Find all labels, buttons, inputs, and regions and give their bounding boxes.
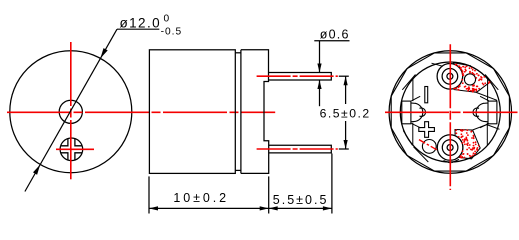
small hole diagonal centerline: [419, 140, 439, 151]
diameter dim arrow lower: [33, 165, 40, 175]
6.5 arrow down: [344, 140, 348, 149]
arrow 5.5 left: [269, 206, 278, 210]
diameter dim text underline: [117, 28, 159, 30]
6.5 dim line lower seg: [345, 121, 347, 149]
right tab wedge upper: [480, 96, 489, 101]
plus polarity cross: [419, 122, 435, 138]
top pocket wedge left: [432, 63, 443, 66]
left tab rectangle: [402, 101, 411, 124]
rib line lower right a: [473, 125, 487, 130]
rib vertical below left tab: [412, 123, 414, 145]
right tab bump: [476, 103, 488, 122]
pin1 terminal hole: [447, 73, 453, 79]
side view body outline: [149, 50, 235, 174]
rib vertical above left tab: [412, 78, 414, 102]
centerline vertical front: [70, 42, 72, 179]
ø0.6 leader lower: [319, 80, 321, 106]
front view body circle: [10, 51, 132, 173]
arrow 10 right: [260, 206, 269, 210]
right tab nose: [473, 108, 479, 116]
back view outer circle: [389, 51, 511, 173]
pin2 terminal hole: [447, 145, 453, 151]
pin1 terminal washer outer: [437, 64, 463, 90]
centerline horizontal front+side: [7, 111, 275, 113]
wire hole circle top: [464, 74, 475, 85]
solder region top boundary: [453, 63, 490, 93]
solder region top stipple: [453, 64, 490, 93]
bottom pocket wedge right: [452, 159, 460, 163]
rib vertical below right tab: [486, 123, 488, 145]
6.5 ext tick bottom: [339, 148, 349, 150]
right tab rectangle: [488, 101, 497, 124]
svg-text:6.5±0.2: 6.5±0.2: [320, 107, 371, 121]
arrow 5.5 right: [323, 206, 332, 210]
extension line cap face: [268, 176, 270, 213]
dimension line 10 and 5.5: [149, 207, 332, 209]
solder region bottom stipple: [455, 129, 479, 159]
solder region bottom boundary: [455, 130, 480, 159]
svg-text:5.5±0.5: 5.5±0.5: [273, 193, 329, 207]
back view dodecagon facets: [391, 53, 509, 171]
ø0.6 arrow down: [317, 64, 321, 73]
pin2 terminal washer mid: [442, 140, 458, 156]
side view rear cap outline: [241, 50, 269, 174]
back view centerline horizontal: [385, 111, 518, 113]
ø0.6 leader upper: [319, 41, 321, 73]
svg-text:0: 0: [164, 13, 170, 24]
centerline screw horizontal: [56, 148, 94, 150]
svg-text:ø0.6: ø0.6: [320, 28, 350, 42]
pin 1 centerline: [257, 75, 338, 77]
6.5 dim line upper seg: [345, 76, 347, 104]
svg-text:10±0.2: 10±0.2: [173, 191, 229, 205]
pin 1 (top) outline: [269, 73, 332, 81]
groove line right of body: [240, 50, 242, 174]
groove notch top: [235, 52, 241, 54]
pin 2 centerline: [257, 148, 338, 150]
diameter dimension leader line: [25, 29, 117, 191]
diameter dim arrow upper: [100, 48, 107, 58]
pin2 terminal washer outer: [437, 135, 463, 161]
arrow 10 left: [149, 206, 158, 210]
rib line lower right b: [487, 125, 500, 130]
bottom pocket wedge left: [444, 161, 450, 163]
groove notch bottom: [235, 169, 241, 171]
minus polarity bar: [425, 87, 428, 103]
ø0.6 arrow up: [317, 80, 321, 89]
front sound hole circle: [59, 100, 82, 123]
pin1 terminal washer mid: [442, 69, 458, 85]
right tab wedge lower: [480, 123, 489, 127]
rib diagonal upper right: [485, 75, 498, 90]
rib vertical above right tab: [487, 78, 489, 102]
pin 2 (bottom) outline: [269, 145, 332, 153]
6.5 arrow up: [344, 76, 348, 85]
left tab wedge lower: [412, 123, 421, 127]
left tab wedge upper: [412, 96, 421, 101]
small hole circle: [422, 140, 436, 154]
screw cross slot: [61, 139, 68, 146]
extension line body left: [148, 176, 150, 213]
rib diagonal lower left: [403, 131, 412, 146]
rib line upper right: [477, 93, 498, 101]
back view inner circle: [400, 62, 500, 162]
svg-text:ø12.0: ø12.0: [120, 15, 162, 30]
svg-text:-0.5: -0.5: [161, 26, 183, 37]
back view centerline vertical: [449, 44, 451, 190]
front screw circle: [60, 138, 83, 161]
rib diagonal upper left: [402, 75, 415, 90]
left tab bump: [411, 103, 423, 122]
extension line pin end: [331, 154, 333, 214]
6.5 ext tick top: [339, 75, 349, 77]
left tab nose: [420, 108, 426, 116]
rib toward small hole: [414, 147, 429, 162]
ø0.6 underline: [314, 40, 349, 42]
